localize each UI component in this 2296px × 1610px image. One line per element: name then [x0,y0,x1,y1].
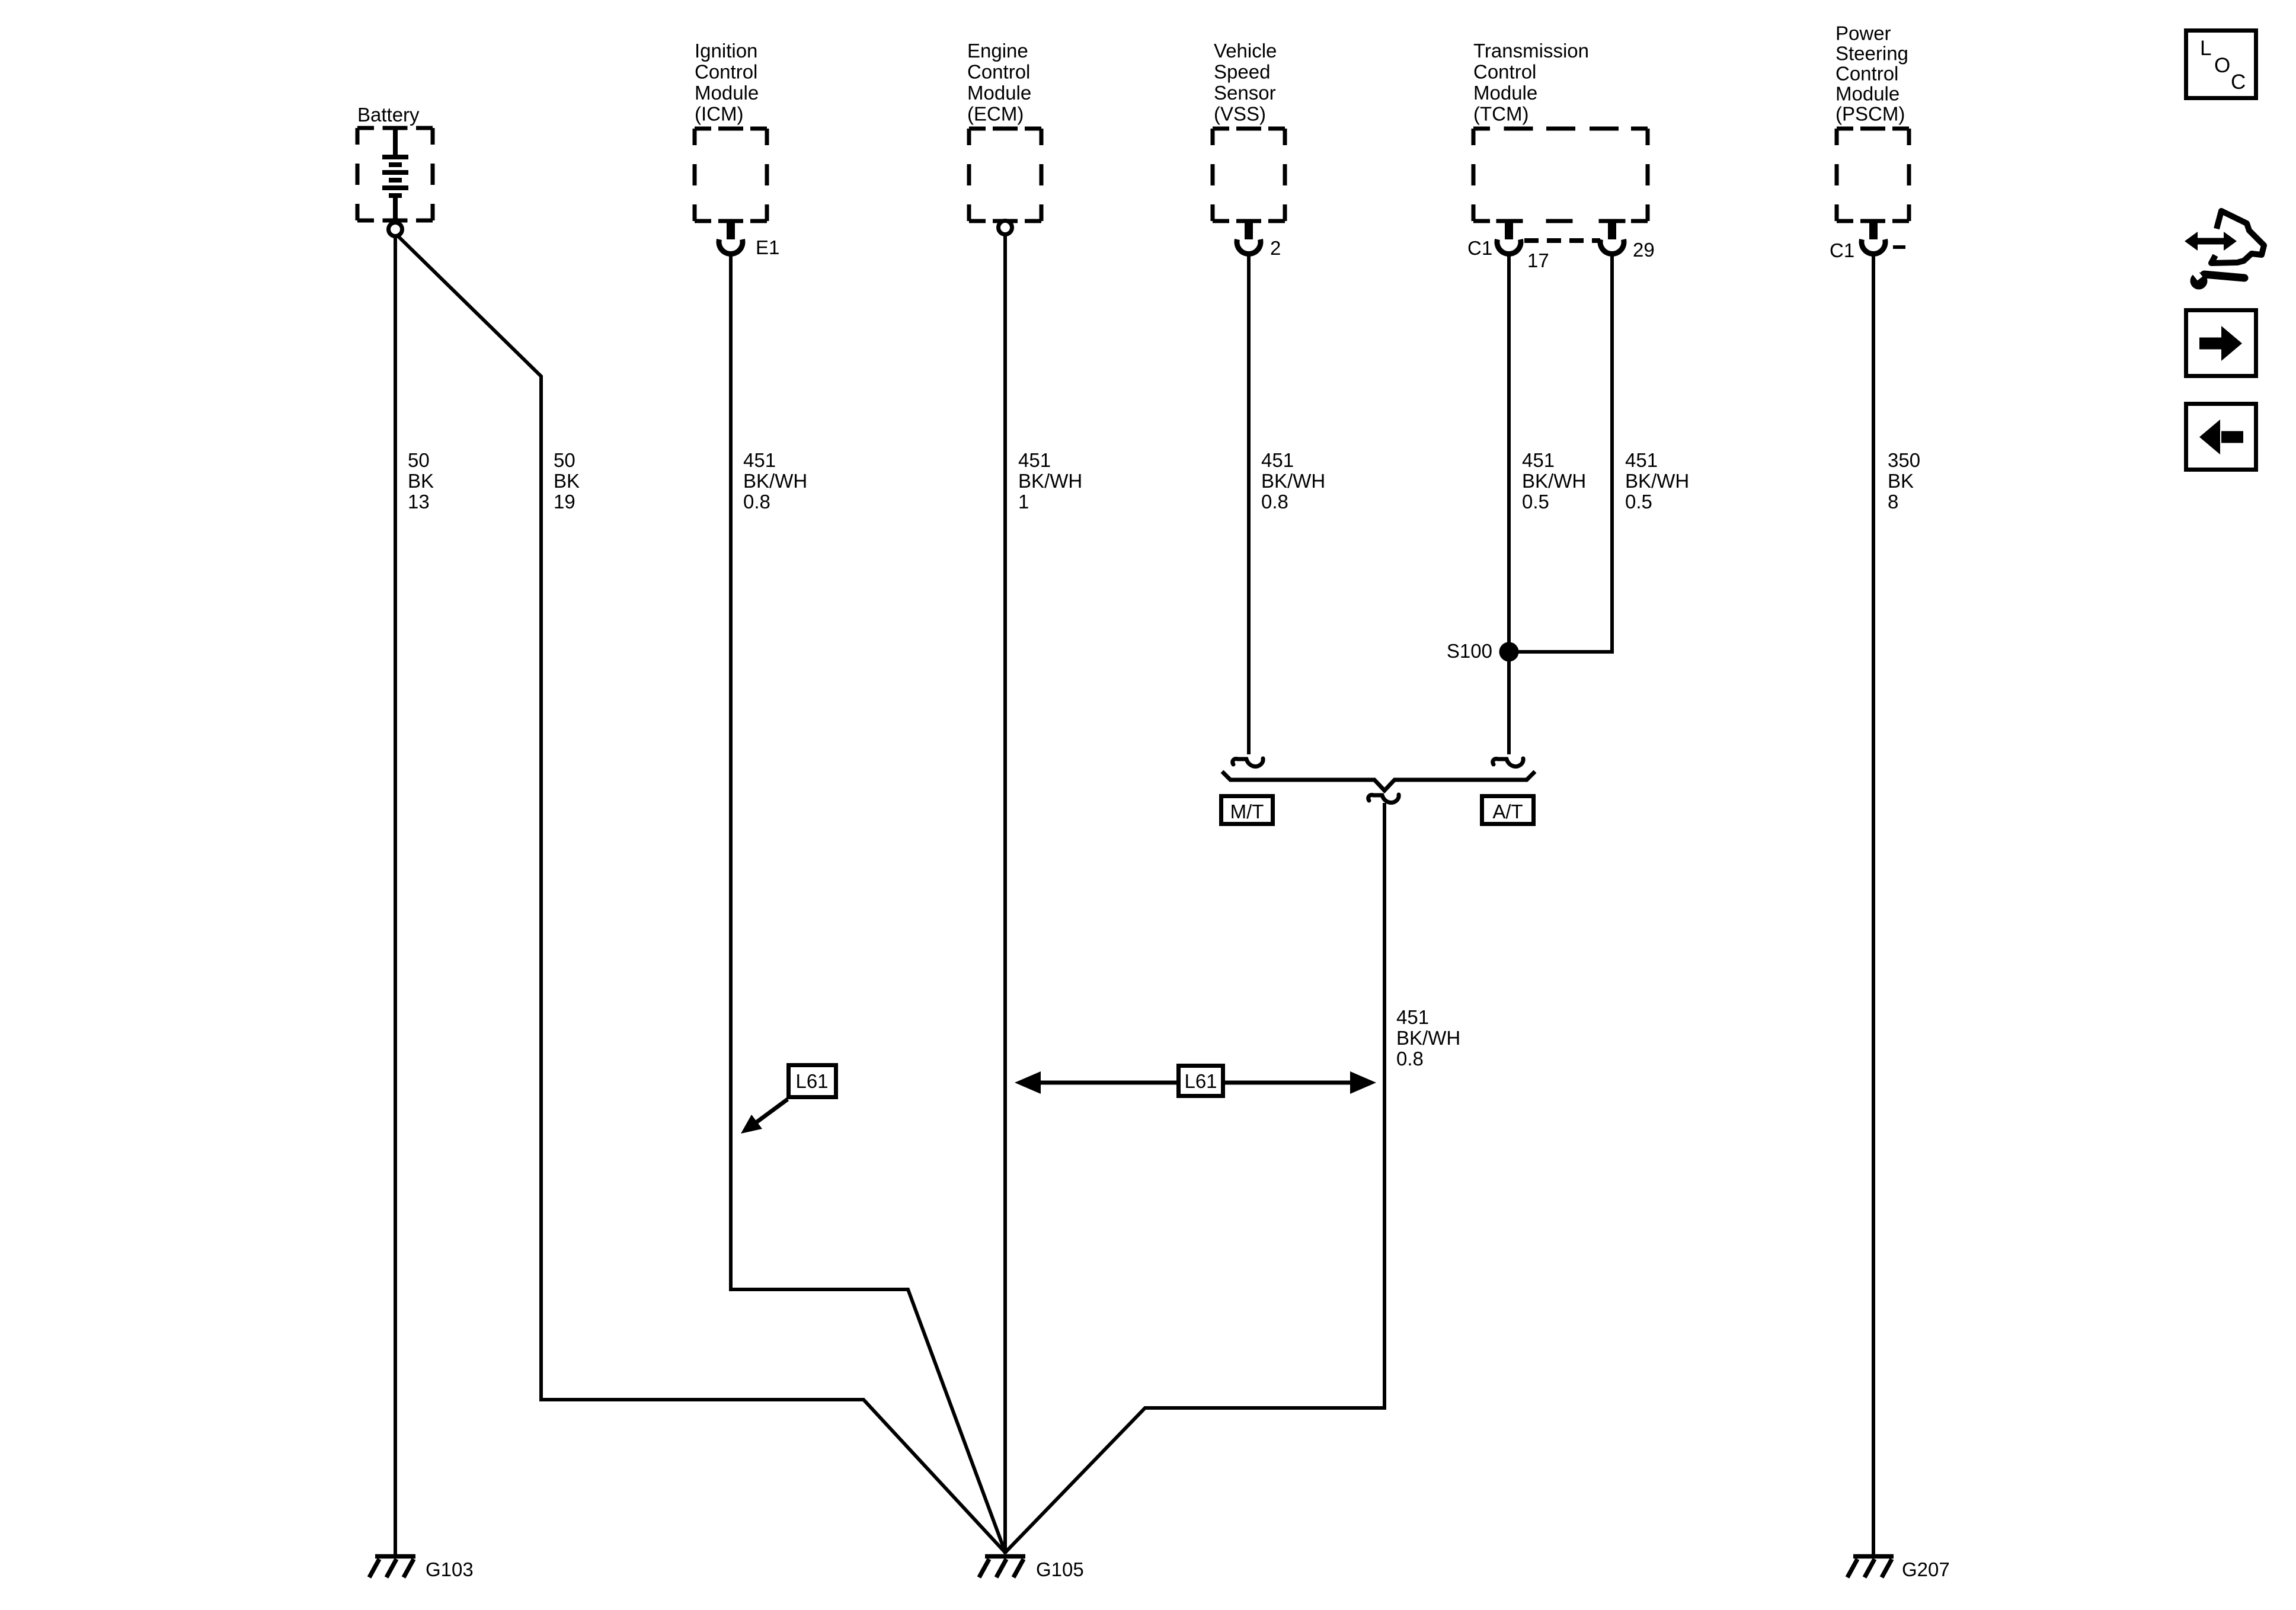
TCM box (dashed) [1473,129,1648,221]
battery box (dashed) [357,128,433,220]
PSCM connector cup [1869,219,1878,239]
forward-arrow legend box [2186,311,2256,376]
VSS box (dashed) [1213,129,1285,221]
L61 callout arrow (to ICM wire) [754,1099,788,1124]
wire TCM pin 17 through S100 to split (ckt 451 BK/WH 0.5) [1507,254,1511,754]
svg-text:C1: C1 [1830,239,1854,261]
svg-text:L61: L61 [795,1070,828,1092]
svg-text:EngineControlModule(ECM): EngineControlModule(ECM) [967,40,1031,125]
splice S100 junction dot [1499,642,1519,662]
wire ECM to G105 (ckt 451 BK/WH 1) [1003,234,1007,1554]
option box A/T [1482,796,1534,824]
wire break squiggle (A/T wire start) [1368,795,1399,803]
svg-text:E1: E1 [756,236,779,258]
battery cell plates symbol [382,130,408,222]
wire VSS pin 2 down to M/T-A/T split (ckt 451 BK/WH 0.8) [1247,254,1251,754]
option box M/T [1221,796,1273,824]
wire ICM E1 to G105 (ckt 451 BK/WH 0.8) [731,254,1006,1554]
wire break squiggle (VSS wire end) [1233,758,1263,767]
L61 span double arrow [1037,1081,1354,1085]
wire A/T option to G105 (ckt 451 BK/WH 0.8) [1005,803,1384,1553]
ground G105 [979,1557,1025,1578]
svg-text:G105: G105 [1036,1558,1084,1580]
TCM connector C1 dashed link [1524,238,1600,243]
L61 option box 2 [1179,1066,1223,1096]
svg-text:L: L [2200,37,2211,60]
TCM connector cup pin 29 [1608,219,1616,239]
svg-text:C: C [2231,71,2246,94]
wire battery to G103 (ckt 50 BK 13) [394,236,397,1554]
wrench icon [2188,264,2244,290]
svg-text:M/T: M/T [1230,801,1264,822]
PSCM box (dashed) [1837,129,1909,221]
svg-text:A/T: A/T [1492,801,1523,822]
svg-text:C1: C1 [1467,237,1492,259]
ECM terminal circle pin 1 [999,221,1012,235]
wire TCM pin 29 to S100 (ckt 451 BK/WH 0.5) [1517,254,1612,652]
wire battery to G105 (ckt 50 BK 19) [396,235,1006,1553]
svg-text:29: 29 [1633,239,1655,261]
back-arrow legend box [2186,404,2256,470]
svg-text:O: O [2214,54,2230,77]
wire PSCM to G207 (ckt 350 BK 8) [1872,254,1875,1554]
LOC legend box [2186,31,2256,98]
svg-text:G207: G207 [1902,1558,1950,1580]
ground G207 [1847,1557,1894,1578]
battery terminal circle [389,223,402,236]
svg-text:2: 2 [1270,237,1281,259]
svg-text:S100: S100 [1447,640,1492,662]
svg-text:L61: L61 [1184,1070,1217,1092]
pin label dash (PSCM) [1893,245,1905,249]
L61 option box 1 [789,1065,836,1097]
ICM box (dashed) [695,129,767,221]
TCM connector cup pin 17 [1505,219,1513,239]
VSS connector cup pin 2 [1245,219,1253,239]
ECM box (dashed) [969,129,1041,221]
option split brace [1222,772,1535,790]
wire break squiggle (TCM 17 wire end) [1493,758,1523,767]
connector-view icon (double arrow through connector shell) [2195,211,2264,263]
ground G103 [369,1557,415,1578]
svg-text:Battery: Battery [357,104,420,126]
svg-text:G103: G103 [426,1558,474,1580]
svg-text:17: 17 [1527,249,1549,271]
ICM connector cup pin E1 [727,219,735,239]
